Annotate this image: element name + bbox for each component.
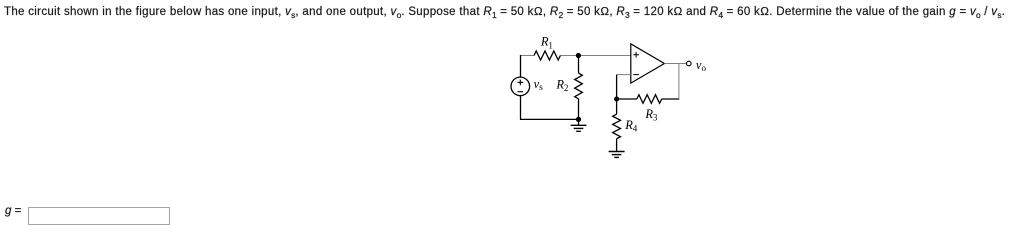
op-amp U1 — [631, 44, 665, 83]
answer row: g = — [5, 205, 21, 217]
svg-text:o: o — [702, 63, 707, 73]
wire: bottom rail — [520, 118, 579, 120]
resistor R1 — [534, 51, 560, 60]
wire: feedback vertical from output down to R3 — [678, 64, 680, 100]
svg-text:1: 1 — [548, 40, 553, 50]
node: bottom rail / ground junction dot — [576, 117, 581, 122]
problem statement text — [4, 6, 1005, 18]
node A junction dot — [576, 53, 581, 58]
wire: R2 bottom stem — [578, 99, 580, 120]
wire: left vertical from top rail down to source top — [520, 55, 522, 77]
resistor R3 — [637, 95, 662, 104]
wire: left vertical from source bottom to bottom rail — [520, 96, 522, 120]
output terminal vo (open circle) — [687, 61, 692, 66]
svg-text:3: 3 — [653, 112, 658, 122]
node B junction dot — [614, 97, 619, 102]
wire: inverting input horizontal — [617, 74, 631, 76]
resistor R4 — [613, 114, 621, 139]
wire: R4 top stem — [616, 99, 618, 114]
resistor R2 — [575, 73, 583, 99]
wire: R2 top stem — [578, 56, 580, 74]
wire: top rail middle segment (R1 to node A to op-amp + input) — [560, 55, 630, 57]
svg-text:2: 2 — [564, 83, 569, 93]
wire: R3 right to feedback corner — [662, 98, 680, 100]
answer input box — [28, 207, 170, 225]
wire: R4 bottom stem — [616, 139, 618, 152]
ground (below R2) — [571, 119, 587, 131]
ground (below R4) — [609, 152, 625, 158]
svg-text:4: 4 — [633, 124, 638, 134]
wire: op-amp output horizontal — [664, 63, 686, 65]
wire: inverting input vertical down to node B — [616, 75, 618, 99]
svg-text:s: s — [539, 82, 543, 92]
wire: node B to R3 left — [617, 98, 637, 100]
voltage source vs — [511, 77, 530, 96]
wire: top rail left segment (source to R1) — [521, 55, 535, 57]
